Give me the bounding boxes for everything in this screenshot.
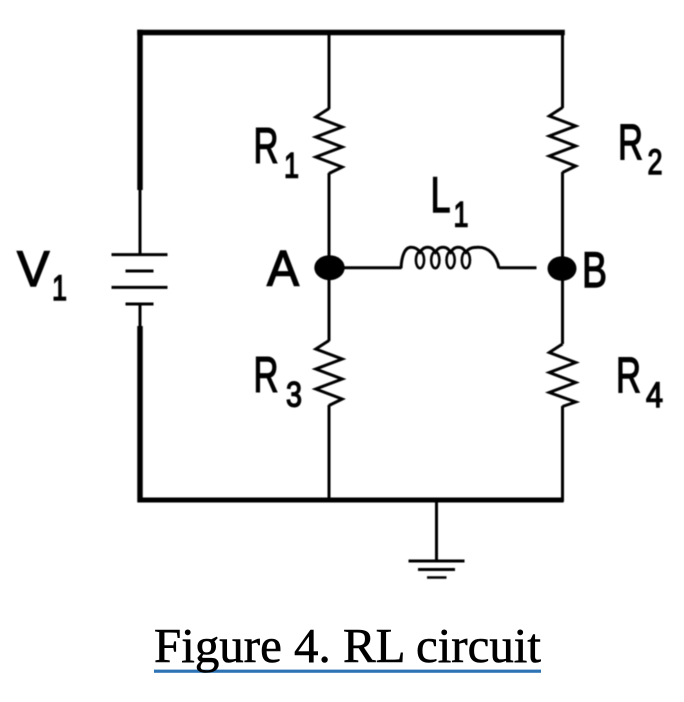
wire left upper thick (137, 30, 143, 190)
svg-text:1: 1 (284, 147, 299, 186)
battery V1 plate long lower (112, 286, 168, 289)
resistor R1 (316, 109, 342, 174)
ground bar 1 (409, 560, 465, 563)
svg-text:L: L (431, 167, 451, 223)
svg-text:R: R (618, 115, 643, 171)
resistor R4 (549, 344, 575, 407)
node A (314, 255, 344, 280)
wire left lower thick (137, 326, 143, 502)
inductor L1 small loop 4 (462, 252, 470, 268)
svg-text:R: R (616, 348, 641, 404)
node B (548, 256, 577, 281)
battery V1 plate short upper (126, 270, 154, 273)
wire left upper thin (139, 188, 142, 254)
battery V1 plate short bottom (126, 303, 154, 306)
wire right top (561, 33, 564, 108)
ground bar 3 (427, 576, 447, 579)
inductor L1 coil (401, 247, 499, 268)
wire middle top (328, 33, 331, 109)
svg-text:1: 1 (454, 196, 469, 235)
wire middle R1 to A (328, 173, 331, 258)
inductor L1 small loop 1 (416, 252, 424, 268)
wire right R4 to bottom (561, 406, 564, 502)
svg-text:1: 1 (52, 269, 67, 308)
svg-text:Figure 4. RL circuit: Figure 4. RL circuit (154, 618, 541, 673)
svg-text:V: V (17, 241, 50, 297)
svg-text:3: 3 (286, 376, 302, 415)
resistor R2 (549, 108, 575, 173)
svg-text:B: B (582, 242, 607, 298)
wire right R2 to B (561, 172, 564, 258)
inductor L1 small loop 2 (431, 252, 439, 268)
ground stem (435, 501, 438, 561)
battery V1 plate long top (112, 253, 168, 256)
wire right B to R4 (561, 279, 564, 344)
wire bottom (138, 498, 564, 503)
svg-text:R: R (254, 118, 279, 174)
wire middle A to R3 (328, 278, 331, 341)
svg-text:R: R (254, 347, 279, 403)
svg-text:4: 4 (646, 376, 663, 415)
wire top (137, 30, 565, 36)
inductor L1 small loop 3 (447, 252, 455, 268)
resistor R3 (316, 341, 342, 406)
caption underline (154, 670, 541, 673)
ground bar 2 (418, 568, 455, 571)
wire inductor to B (499, 266, 537, 269)
wire A to inductor (344, 266, 402, 269)
svg-text:2: 2 (648, 143, 663, 182)
svg-text:A: A (267, 241, 300, 297)
wire middle R3 to bottom (328, 405, 331, 500)
wire left lower thin (139, 304, 142, 328)
